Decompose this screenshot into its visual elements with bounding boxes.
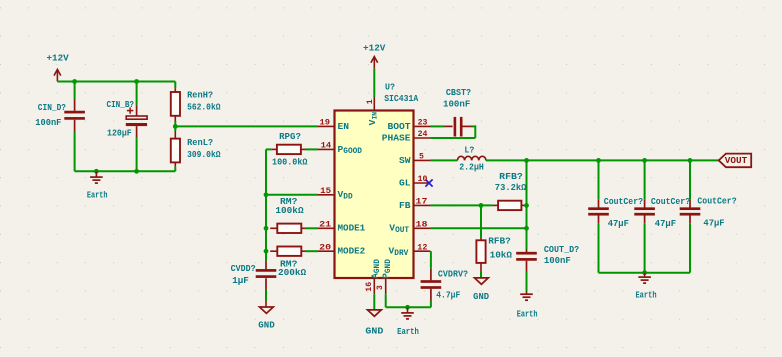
svg-text:GND: GND bbox=[473, 291, 489, 302]
svg-text:MODE1: MODE1 bbox=[338, 223, 366, 234]
svg-text:21: 21 bbox=[319, 221, 331, 230]
svg-text:47µF: 47µF bbox=[655, 218, 676, 229]
svg-text:73.2kΩ: 73.2kΩ bbox=[495, 182, 527, 193]
svg-text:100.0kΩ: 100.0kΩ bbox=[272, 156, 308, 167]
svg-text:Earth: Earth bbox=[517, 309, 538, 320]
svg-text:+12V: +12V bbox=[46, 53, 69, 64]
svg-text:CIN_B?: CIN_B? bbox=[107, 99, 135, 110]
svg-text:47µF: 47µF bbox=[703, 217, 724, 228]
svg-text:4.7µF: 4.7µF bbox=[436, 290, 460, 301]
svg-text:L?: L? bbox=[464, 145, 474, 156]
svg-text:1: 1 bbox=[366, 99, 375, 104]
svg-text:309.0kΩ: 309.0kΩ bbox=[187, 149, 221, 160]
svg-text:24: 24 bbox=[418, 130, 428, 139]
svg-text:2.2µH: 2.2µH bbox=[459, 161, 484, 172]
svg-text:15: 15 bbox=[320, 187, 331, 196]
svg-text:VOUT: VOUT bbox=[725, 155, 748, 166]
svg-text:GL: GL bbox=[399, 177, 411, 188]
svg-text:100nF: 100nF bbox=[35, 117, 61, 128]
svg-text:+12V: +12V bbox=[363, 42, 386, 53]
svg-text:EN: EN bbox=[338, 121, 350, 132]
svg-text:RFB?: RFB? bbox=[488, 236, 511, 247]
svg-text:1µF: 1µF bbox=[232, 275, 249, 286]
svg-text:100nF: 100nF bbox=[443, 99, 471, 110]
svg-text:10: 10 bbox=[418, 175, 428, 184]
svg-text:PHASE: PHASE bbox=[382, 132, 411, 143]
svg-text:18: 18 bbox=[416, 221, 428, 230]
svg-text:12: 12 bbox=[417, 243, 427, 252]
svg-text:RenL?: RenL? bbox=[187, 137, 213, 148]
svg-text:CoutCer?: CoutCer? bbox=[604, 196, 643, 207]
svg-text:Earth: Earth bbox=[635, 289, 656, 300]
svg-text:RFB?: RFB? bbox=[499, 171, 523, 182]
svg-text:GND: GND bbox=[365, 326, 383, 337]
svg-text:23: 23 bbox=[418, 119, 428, 128]
svg-text:SIC431A: SIC431A bbox=[384, 93, 418, 104]
svg-text:MODE2: MODE2 bbox=[338, 246, 366, 257]
svg-text:RenH?: RenH? bbox=[187, 90, 213, 101]
svg-text:10kΩ: 10kΩ bbox=[490, 250, 513, 261]
svg-text:200kΩ: 200kΩ bbox=[278, 267, 306, 278]
svg-text:COUT_D?: COUT_D? bbox=[544, 244, 580, 255]
svg-text:CIN_D?: CIN_D? bbox=[38, 102, 66, 113]
svg-text:20: 20 bbox=[319, 243, 331, 252]
svg-text:120µF: 120µF bbox=[107, 127, 132, 138]
svg-text:5: 5 bbox=[419, 153, 424, 162]
svg-text:BOOT: BOOT bbox=[387, 121, 410, 132]
svg-text:FB: FB bbox=[399, 200, 411, 211]
svg-text:RPG?: RPG? bbox=[279, 131, 301, 142]
svg-text:CVDD?: CVDD? bbox=[231, 263, 256, 274]
svg-text:Earth: Earth bbox=[397, 326, 419, 337]
svg-text:562.0kΩ: 562.0kΩ bbox=[187, 101, 221, 112]
svg-text:CVDRV?: CVDRV? bbox=[438, 269, 468, 280]
svg-text:U?: U? bbox=[385, 82, 395, 93]
svg-text:GND: GND bbox=[258, 319, 275, 330]
svg-text:100nF: 100nF bbox=[544, 255, 571, 266]
svg-text:CoutCer?: CoutCer? bbox=[651, 196, 690, 207]
svg-text:3: 3 bbox=[376, 285, 385, 290]
svg-text:CoutCer?: CoutCer? bbox=[697, 195, 736, 206]
svg-text:CBST?: CBST? bbox=[446, 87, 471, 98]
svg-text:Earth: Earth bbox=[87, 189, 108, 200]
svg-text:19: 19 bbox=[320, 119, 331, 128]
svg-text:17: 17 bbox=[416, 198, 428, 207]
svg-text:16: 16 bbox=[365, 282, 374, 292]
svg-text:100kΩ: 100kΩ bbox=[275, 205, 303, 216]
svg-text:SW: SW bbox=[399, 155, 411, 166]
svg-text:47µF: 47µF bbox=[608, 218, 629, 229]
svg-text:14: 14 bbox=[321, 142, 332, 151]
